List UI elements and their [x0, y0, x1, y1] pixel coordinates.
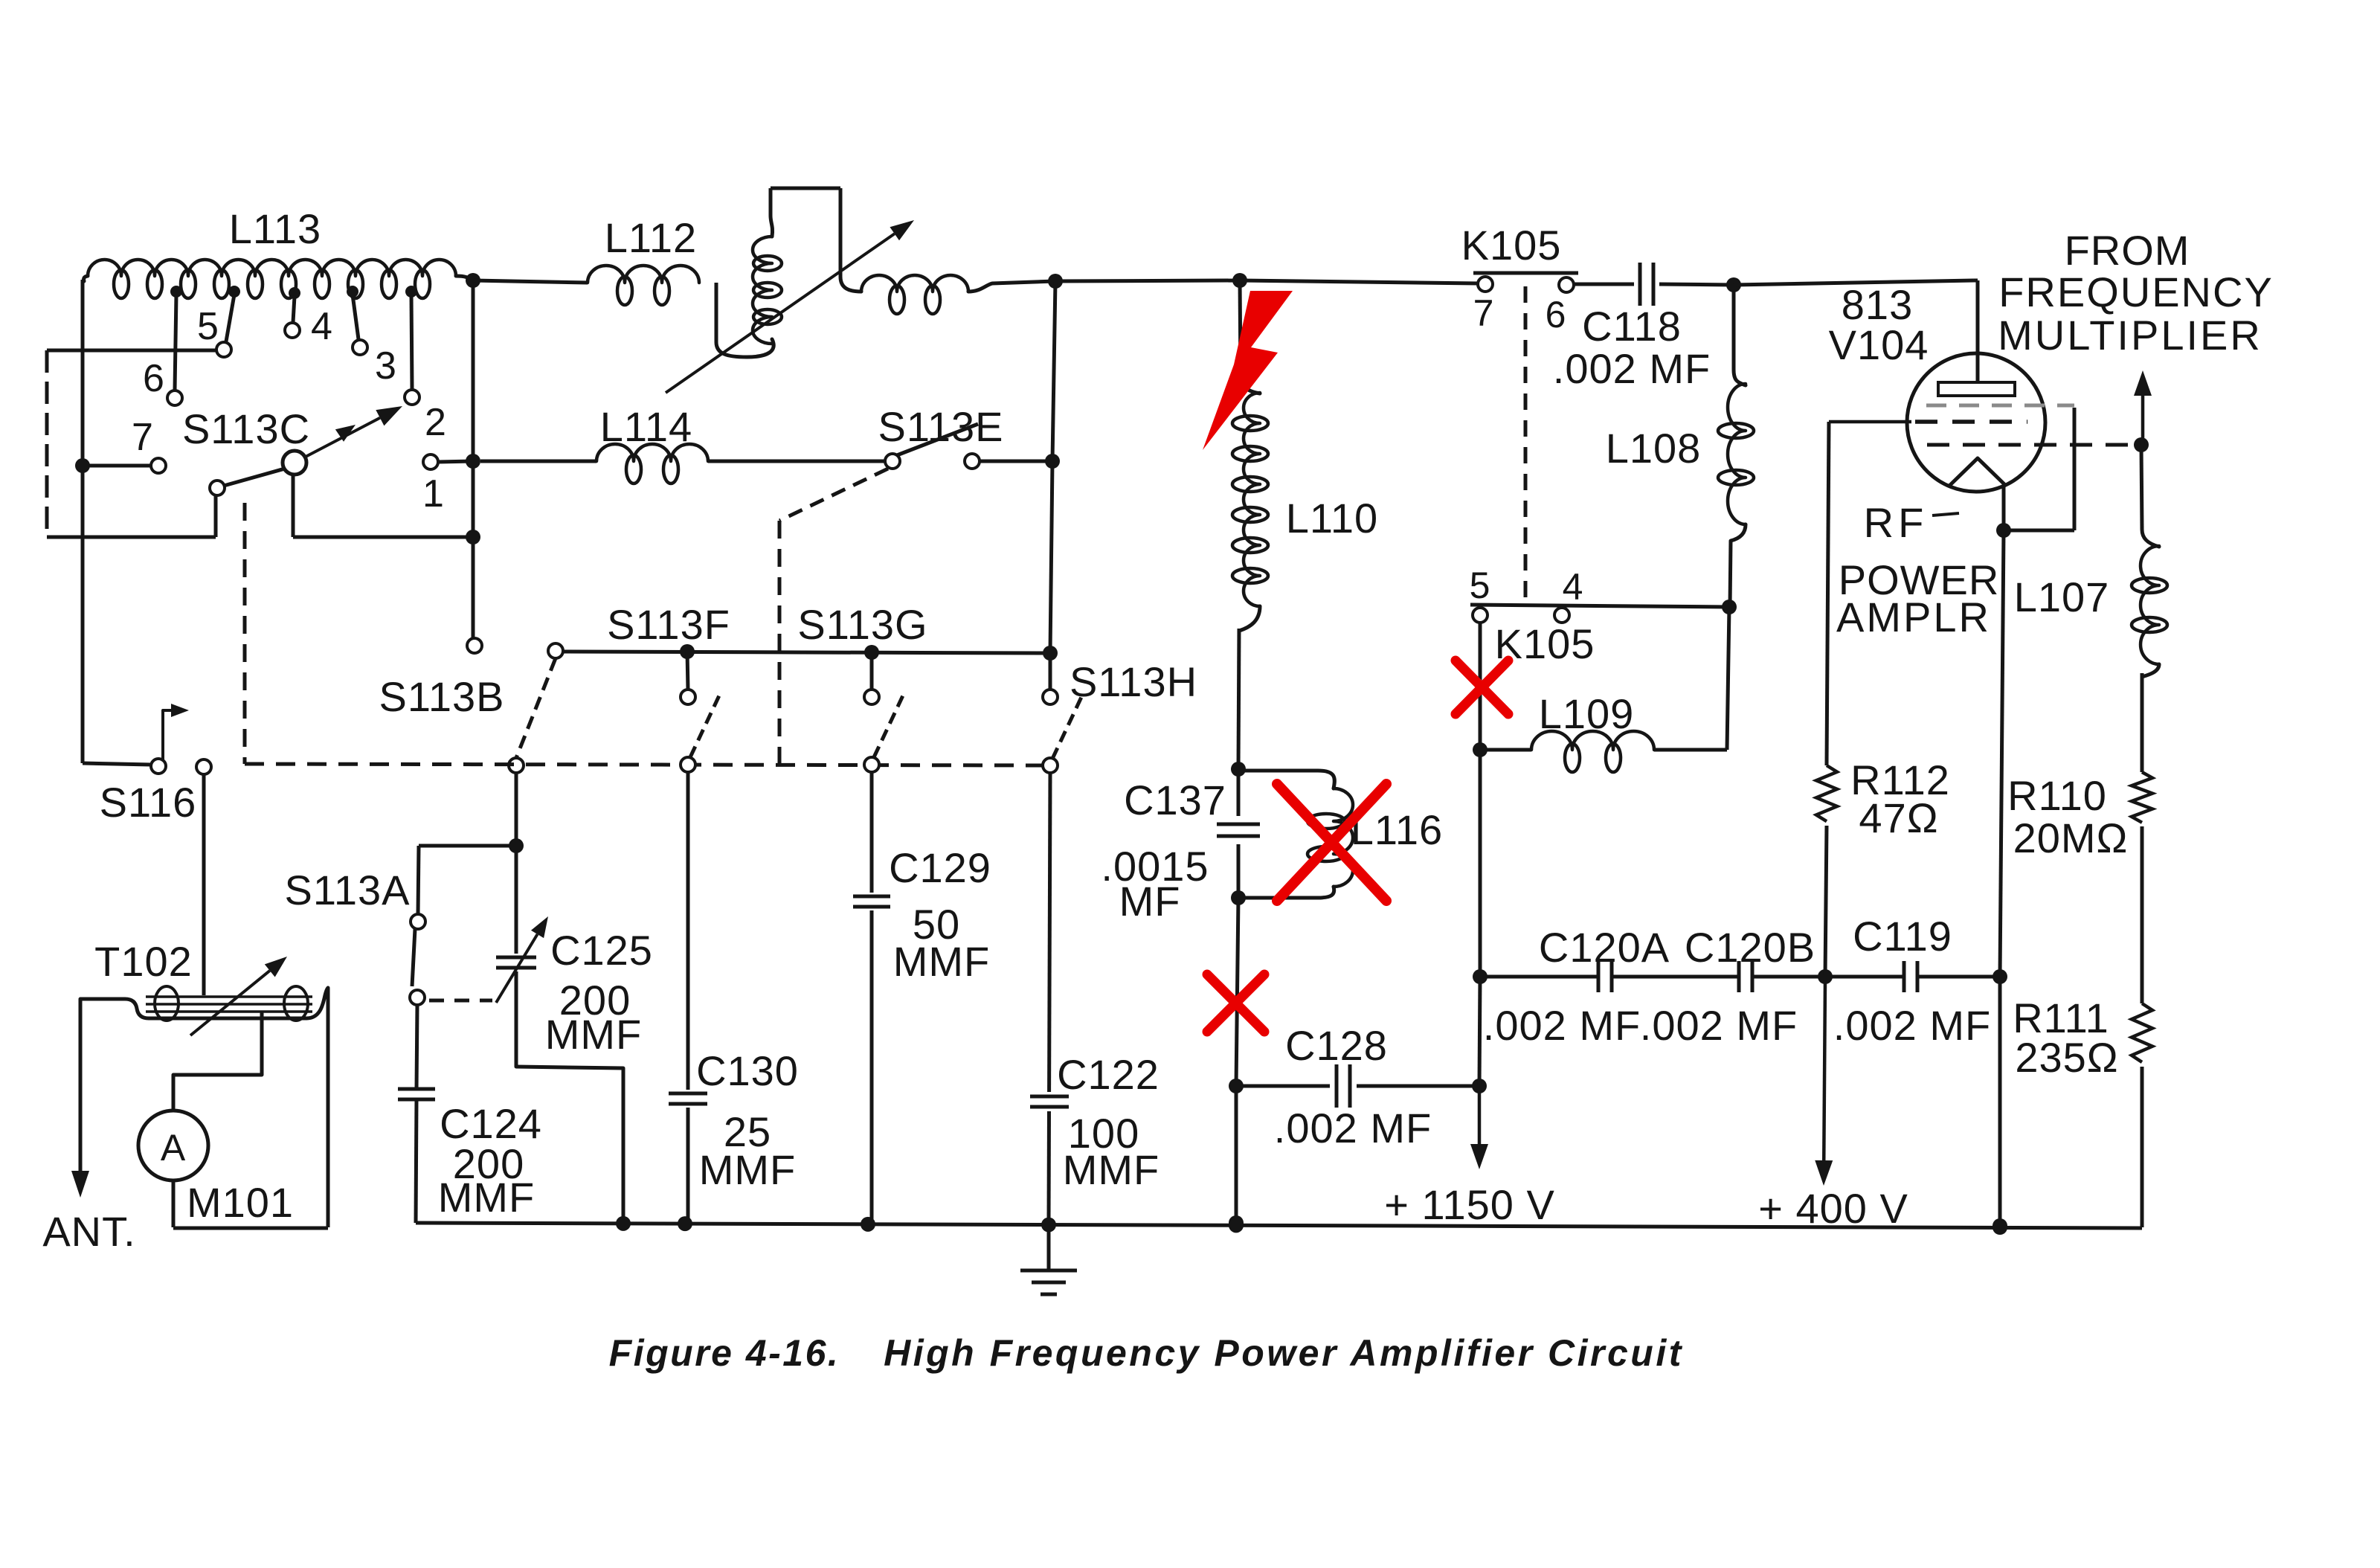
svg-text:V104: V104 [1829, 321, 1929, 368]
svg-text:.002 MF: .002 MF [1833, 1002, 1991, 1049]
svg-text:47Ω: 47Ω [1859, 794, 1938, 841]
svg-text:C137: C137 [1124, 777, 1226, 823]
svg-text:L113: L113 [229, 205, 321, 252]
svg-text:C130: C130 [696, 1047, 799, 1094]
svg-text:Figure 4-16.: Figure 4-16. [609, 1332, 840, 1374]
svg-text:L114: L114 [600, 403, 692, 450]
svg-text:+ 400 V: + 400 V [1758, 1185, 1908, 1232]
svg-text:MMF: MMF [893, 938, 991, 985]
svg-text:FROM: FROM [2065, 227, 2190, 274]
svg-text:.002 MF: .002 MF [1640, 1002, 1798, 1049]
svg-text:T102: T102 [94, 938, 193, 985]
svg-text:L112: L112 [605, 214, 697, 261]
svg-text:S113E: S113E [878, 403, 1004, 450]
svg-text:+ 1150 V: + 1150 V [1384, 1181, 1555, 1228]
svg-text:.002 MF: .002 MF [1553, 345, 1711, 392]
svg-text:7: 7 [1473, 292, 1495, 334]
svg-text:MMF: MMF [1063, 1146, 1160, 1193]
svg-text:5: 5 [197, 305, 219, 348]
svg-text:A: A [161, 1127, 186, 1169]
svg-text:C128: C128 [1285, 1022, 1388, 1069]
svg-text:MMF: MMF [545, 1011, 643, 1058]
svg-text:.002 MF: .002 MF [1483, 1002, 1641, 1049]
svg-text:S113C: S113C [182, 405, 310, 452]
svg-text:6: 6 [143, 357, 165, 400]
svg-text:L108: L108 [1606, 425, 1702, 472]
svg-text:FREQUENCY: FREQUENCY [1998, 269, 2274, 315]
svg-text:3: 3 [375, 344, 397, 388]
svg-text:ANT.: ANT. [42, 1208, 135, 1255]
svg-text:C125: C125 [550, 927, 653, 974]
svg-text:RF: RF [1864, 499, 1929, 546]
svg-text:C120B: C120B [1685, 924, 1815, 971]
svg-text:AMPLR: AMPLR [1836, 594, 1991, 640]
svg-text:4: 4 [1563, 566, 1584, 608]
svg-text:K105: K105 [1461, 222, 1562, 269]
svg-text:C120A: C120A [1539, 924, 1670, 971]
svg-text:7: 7 [132, 416, 154, 459]
svg-text:R110: R110 [2007, 772, 2107, 819]
svg-text:S113G: S113G [797, 601, 927, 648]
svg-text:L109: L109 [1539, 690, 1635, 737]
svg-text:MMF: MMF [699, 1146, 797, 1193]
svg-text:MMF: MMF [438, 1174, 535, 1221]
svg-text:MULTIPLIER: MULTIPLIER [1998, 312, 2262, 359]
svg-text:S113B: S113B [379, 673, 505, 720]
svg-text:C119: C119 [1853, 913, 1952, 960]
svg-text:L107: L107 [2014, 573, 2110, 620]
svg-text:4: 4 [311, 305, 333, 348]
svg-text:1: 1 [422, 472, 445, 515]
svg-text:C122: C122 [1057, 1051, 1160, 1098]
svg-text:2: 2 [425, 401, 447, 444]
svg-text:L110: L110 [1286, 495, 1378, 542]
svg-text:S113H: S113H [1070, 658, 1197, 705]
svg-text:C118: C118 [1582, 303, 1682, 350]
svg-text:5: 5 [1470, 565, 1491, 606]
svg-text:C129: C129 [889, 844, 991, 891]
svg-text:235Ω: 235Ω [2015, 1034, 2118, 1081]
svg-text:20MΩ: 20MΩ [2013, 814, 2129, 861]
svg-text:High Frequency Power Amplifier: High Frequency Power Amplifier Circuit [884, 1332, 1684, 1374]
svg-text:6: 6 [1546, 294, 1567, 335]
svg-text:S113A: S113A [285, 867, 411, 913]
svg-text:S113F: S113F [607, 601, 730, 648]
svg-text:S116: S116 [100, 779, 197, 826]
svg-text:M101: M101 [187, 1179, 294, 1226]
svg-text:MF: MF [1119, 878, 1181, 925]
svg-text:.002 MF: .002 MF [1274, 1105, 1432, 1151]
